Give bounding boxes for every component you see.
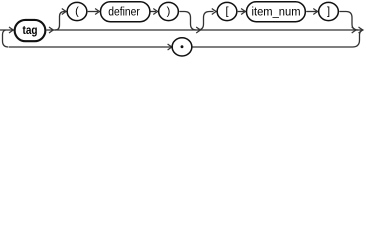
svg-text:definer: definer (108, 4, 140, 18)
svg-text:item_num: item_num (252, 4, 301, 18)
svg-text:(: ( (75, 5, 79, 17)
svg-text:[: [ (225, 5, 228, 17)
svg-text:): ) (167, 5, 171, 17)
svg-text:tag: tag (23, 25, 38, 37)
svg-text:]: ] (327, 5, 330, 17)
